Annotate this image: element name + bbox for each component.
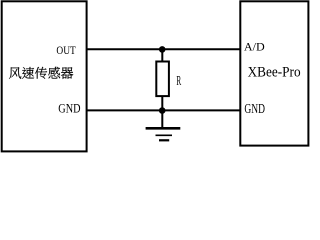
svg-text:OUT: OUT (56, 45, 75, 57)
svg-text:XBee-Pro: XBee-Pro (248, 65, 301, 81)
svg-text:GND: GND (244, 101, 265, 116)
svg-text:R: R (176, 74, 181, 89)
svg-text:GND: GND (58, 102, 80, 116)
svg-text:A/D: A/D (244, 40, 265, 54)
